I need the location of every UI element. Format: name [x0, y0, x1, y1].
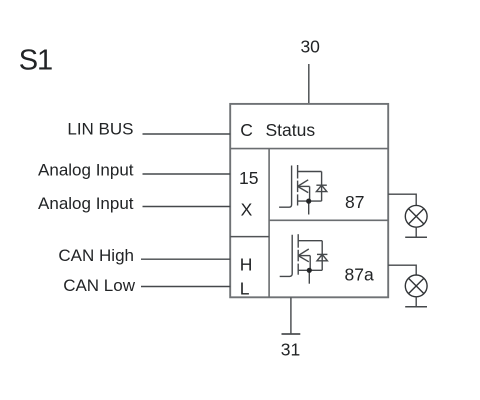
- E2 cross stroke 2: [409, 278, 424, 293]
- output cells divider: [269, 219, 388, 221]
- Q1 drain rail: [298, 171, 322, 173]
- svg-text:H: H: [240, 254, 253, 274]
- Q2 source arrow barb upper: [298, 249, 309, 256]
- wire supply 30: [308, 64, 310, 104]
- lamp E2: [405, 275, 427, 297]
- Q1 body diode triangle: [316, 185, 326, 191]
- Q2 source rail: [298, 269, 322, 271]
- Q1 gate lead: [279, 166, 292, 208]
- Q1 body-diode branch: [321, 172, 323, 202]
- MOSFET Q1 high-side switch (output 87): [279, 165, 327, 215]
- wire output 87a to lamp E2: [388, 265, 416, 275]
- svg-text:87a: 87a: [345, 264, 374, 284]
- pin column divider: [268, 149, 270, 298]
- svg-text:CAN Low: CAN Low: [63, 276, 136, 295]
- Q1 source arrow shaft: [298, 185, 310, 187]
- Q1 source junction dot: [306, 199, 311, 204]
- wire output 87 to lamp E1: [388, 194, 416, 205]
- Q1 source rail: [298, 200, 322, 202]
- module S1 body box: [230, 104, 388, 297]
- svg-text:CAN High: CAN High: [58, 246, 134, 265]
- Q2 source arrow shaft: [298, 255, 310, 257]
- wire CAN Low to pin L: [141, 286, 230, 288]
- Q2 body-diode branch: [321, 241, 323, 271]
- Q1 channel segment body: [297, 181, 299, 193]
- wire LIN BUS to pin C: [143, 133, 231, 135]
- Q2 gate lead: [280, 235, 293, 277]
- Q2 body diode cathode bar: [317, 253, 327, 255]
- wire ground 31: [290, 297, 292, 333]
- svg-text:L: L: [240, 279, 250, 299]
- Q2 source drop: [309, 256, 311, 271]
- E1 bulb outline: [405, 205, 427, 227]
- svg-text:Status: Status: [266, 120, 316, 140]
- svg-text:Analog Input: Analog Input: [38, 161, 134, 180]
- svg-text:15: 15: [239, 168, 258, 188]
- Q2 source arrow barb lower: [298, 256, 309, 262]
- svg-text:87: 87: [345, 192, 364, 212]
- svg-text:Analog Input: Analog Input: [38, 194, 134, 213]
- E1 cross stroke 2: [409, 209, 424, 224]
- Q1 source drop: [309, 186, 311, 201]
- ground bar 31: [282, 333, 301, 335]
- lamp E1 lower lead: [415, 227, 417, 237]
- status row divider: [230, 148, 388, 150]
- Q2 drain rail: [298, 240, 322, 242]
- Q1 output stub: [308, 201, 310, 214]
- svg-text:S1: S1: [19, 45, 52, 77]
- wire CAN High to pin H: [141, 258, 230, 260]
- E1 cross stroke 1: [409, 209, 424, 224]
- svg-text:31: 31: [281, 339, 300, 359]
- E2 bulb outline: [405, 275, 427, 297]
- svg-text:LIN BUS: LIN BUS: [67, 120, 133, 139]
- lamp E2 lower lead: [415, 297, 417, 307]
- Q2 channel segment source: [297, 264, 299, 275]
- wire Analog Input 2 to pin X: [143, 206, 231, 208]
- wire Analog Input 1 to pin 15: [143, 173, 231, 175]
- E2 cross stroke 1: [409, 278, 424, 293]
- MOSFET Q2 high-side switch (output 87a): [280, 234, 328, 284]
- pin block divider X/H: [230, 236, 269, 238]
- Q1 body diode cathode bar: [316, 184, 326, 186]
- Q2 body diode triangle: [317, 254, 327, 260]
- lamp E1 terminal bar: [405, 236, 427, 238]
- svg-text:C: C: [240, 120, 253, 140]
- svg-text:30: 30: [300, 37, 320, 57]
- Q1 source arrow barb lower: [298, 186, 309, 192]
- svg-text:X: X: [241, 199, 253, 219]
- Q1 channel segment source: [297, 194, 299, 205]
- Q2 channel segment drain: [297, 234, 299, 248]
- Q2 source junction dot: [307, 268, 312, 273]
- Q2 channel segment body: [297, 250, 299, 261]
- Q2 output stub: [308, 270, 310, 283]
- Q1 channel segment drain: [297, 165, 299, 179]
- Q1 source arrow barb upper: [298, 180, 309, 187]
- lamp E2 terminal bar: [405, 306, 427, 308]
- lamp E1: [405, 205, 427, 227]
